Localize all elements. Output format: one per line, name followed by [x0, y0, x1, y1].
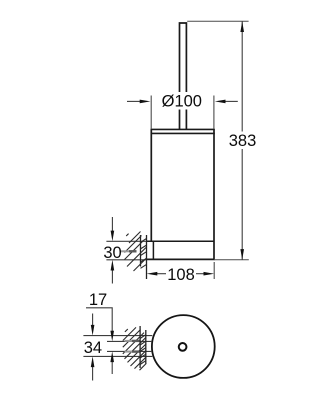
- side view: canister rim (lid): [151, 129, 215, 133]
- dimension Ø100: right arrow: [225, 100, 238, 102]
- bottom view: wall back line: [145, 330, 147, 364]
- dimension 108: dimension line with arrows: [157, 273, 166, 275]
- dimension Ø100: left arrow: [127, 100, 141, 102]
- side view: wall back line / 108 left extension: [146, 235, 148, 279]
- side view: gray center dash at plate: [121, 250, 130, 252]
- bottom view: wall hatching: [123, 327, 147, 370]
- dimension 17: bottom arrow: [111, 362, 113, 374]
- dimension 17: top arrowhead: [110, 331, 114, 342]
- dimension Ø100: label: [158, 92, 207, 110]
- dimension Ø100: left extension line: [150, 96, 152, 130]
- dimension 383: bottom arrowhead: [240, 249, 244, 260]
- svg-text:383: 383: [229, 132, 257, 150]
- bottom view: plate top edge / 34 top extension: [83, 335, 152, 337]
- bottom view: wall face line: [139, 326, 141, 368]
- dimension 30: bottom arrow: [111, 270, 113, 284]
- side view: mount plate bottom edge extension: [106, 259, 146, 261]
- bottom view: big circle (holder top view): [152, 315, 215, 378]
- bottom view: small center circle: [179, 343, 187, 351]
- side view: brush handle: [180, 23, 187, 129]
- side view: wall face line: [140, 235, 142, 267]
- dimension 108: right extension line: [213, 262, 215, 279]
- svg-text:30: 30: [103, 244, 121, 262]
- side view: wall hatching: [125, 232, 147, 272]
- bottom view: 17 bottom extension: [107, 350, 152, 352]
- svg-text:108: 108: [167, 266, 195, 284]
- extension line from canister bottom to 383 dimension: [214, 259, 249, 261]
- side view: base band top line: [147, 240, 215, 242]
- dimension 383: vertical line: [241, 21, 243, 131]
- side view: canister body: [147, 129, 215, 259]
- extension line from handle top to 383 dimension: [187, 20, 248, 22]
- dimension 34: top arrow: [92, 314, 94, 326]
- svg-text:Ø100: Ø100: [162, 93, 202, 111]
- bottom view: gray dashes at 17 lines: [125, 340, 133, 342]
- side view: base band left inset edge: [152, 241, 154, 259]
- svg-text:17: 17: [89, 291, 107, 309]
- bottom view: plate bottom edge / 34 bottom extension: [83, 355, 152, 357]
- dimension 383: top arrowhead: [240, 21, 244, 32]
- bottom view: 17 top extension: [107, 340, 152, 342]
- dimension 17: leader line: [86, 308, 112, 331]
- dimension Ø100: right extension line: [213, 96, 215, 130]
- dimension 34: bottom arrow: [92, 367, 94, 381]
- dimension 30: top arrow: [111, 217, 113, 231]
- svg-text:34: 34: [84, 339, 102, 357]
- side view: mount plate top edge extension: [106, 240, 146, 242]
